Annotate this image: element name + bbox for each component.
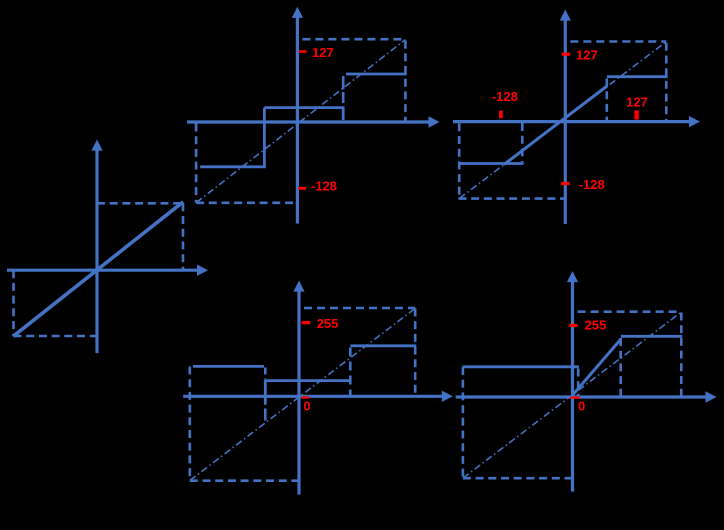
plot D dashed vertical left: [189, 367, 192, 481]
plot A dashed vertical right: [182, 203, 185, 270]
plot C dashed vertical below right step: [605, 79, 608, 122]
plot C dashed vertical right: [665, 43, 668, 122]
plot C solid diagonal: [504, 86, 607, 165]
plot D dashed vertical right: [414, 309, 417, 397]
plot C dashed diagonal: [459, 42, 666, 199]
plot D upper step: [351, 344, 417, 347]
plot E upper step: [621, 335, 682, 338]
plot E dashed vertical below upper step: [619, 338, 622, 397]
plot B upper step: [346, 73, 407, 76]
plot B dashed vertical between upper and middle steps: [342, 76, 345, 103]
plot E dashed horizontal bottom: [463, 477, 573, 480]
plot B dashed horizontal bottom: [196, 202, 299, 205]
svg-text:-128: -128: [492, 89, 518, 104]
plot D dashed vertical between left and middle steps: [264, 368, 267, 380]
plot D tick 255: [302, 321, 311, 324]
svg-text:0: 0: [303, 399, 310, 414]
plot D dashed vertical to diagonal: [264, 409, 267, 423]
plot C right step: [607, 75, 668, 78]
plot E solid diagonal: [573, 339, 621, 395]
plot D dashed horizontal bottom: [190, 479, 301, 482]
plot C x-axis arrowhead: [689, 116, 700, 127]
plot E tick 255: [569, 324, 577, 327]
plot B x-axis: [187, 120, 430, 123]
plot D left step: [193, 365, 264, 368]
plot D tick 0: [302, 396, 310, 398]
plot E dashed vertical right: [680, 313, 683, 397]
plot D x-axis arrowhead: [442, 391, 453, 402]
plot B y-axis arrowhead: [292, 7, 303, 18]
plot B solid stub below middle step: [342, 108, 345, 120]
plot B x-axis arrowhead: [429, 116, 440, 127]
svg-text:255: 255: [317, 316, 339, 331]
plot E dashed diagonal: [463, 312, 681, 478]
plot B dashed horizontal top: [297, 38, 405, 41]
plot D x-axis: [183, 395, 443, 398]
plot A x-axis arrowhead: [197, 265, 208, 276]
plot A dashed vertical left: [12, 270, 15, 336]
plot B dashed diagonal: [196, 40, 405, 203]
plot E dashed vertical below left step end: [577, 369, 580, 397]
svg-text:255: 255: [585, 317, 607, 332]
svg-text:127: 127: [626, 95, 648, 110]
plot B lower step: [200, 165, 265, 168]
plot D middle step: [265, 379, 351, 382]
plot C dashed vertical left: [458, 123, 461, 198]
plot A dashed horizontal upper: [97, 202, 183, 205]
plot E dashed horizontal top: [573, 310, 682, 313]
svg-text:-128: -128: [311, 179, 337, 194]
plot E x-axis: [456, 395, 707, 398]
plot A x-axis: [7, 269, 198, 272]
plot B solid vertical joining middle and lower steps: [263, 108, 266, 167]
plot C dashed vertical above left step: [521, 123, 524, 162]
plot E y-axis arrowhead: [567, 271, 578, 282]
plot C tick -128 lower: [561, 182, 570, 185]
plot D y-axis arrowhead: [293, 281, 304, 292]
svg-text:0: 0: [578, 399, 585, 414]
plot D dashed horizontal top: [299, 307, 415, 310]
svg-text:127: 127: [312, 45, 334, 60]
plot D solid stub below middle step: [264, 380, 267, 405]
svg-text:127: 127: [576, 48, 598, 63]
plot E x-axis arrowhead: [706, 391, 717, 402]
plot C tick 127 upper: [562, 53, 570, 56]
plot E left step: [463, 365, 579, 368]
svg-text:-128: -128: [579, 177, 605, 192]
plot A y-axis: [95, 150, 98, 353]
plot A y-axis arrowhead: [91, 140, 102, 151]
plot B dashed vertical left: [195, 124, 198, 203]
plot B y-axis: [296, 17, 299, 224]
plot C y-axis arrowhead: [560, 10, 571, 21]
plot D dashed vertical below upper step: [349, 348, 352, 397]
plot D y-axis: [297, 291, 300, 495]
plot A dashed horizontal bottom: [14, 335, 98, 338]
plot E y-axis: [571, 282, 574, 492]
plot C left step: [460, 162, 524, 165]
plot D dashed diagonal: [190, 308, 415, 480]
plot C dashed horizontal bottom: [458, 197, 565, 200]
plot A solid diagonal: [13, 202, 183, 336]
plot B tick 127: [299, 50, 307, 53]
plot B dashed vertical right: [404, 41, 407, 122]
plot E tick 0: [570, 396, 580, 398]
plot C tick 127 right: [634, 110, 638, 119]
plot C x-axis: [453, 120, 690, 123]
plot E dashed vertical left: [462, 367, 465, 478]
plot B middle step: [264, 106, 344, 109]
plot B tick -128: [298, 187, 306, 190]
plot C y-axis: [564, 20, 567, 224]
plot C dashed horizontal top: [565, 40, 666, 43]
plot C tick -128 left: [499, 111, 503, 119]
